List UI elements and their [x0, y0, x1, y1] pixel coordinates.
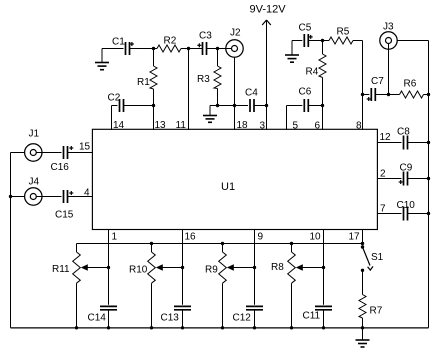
svg-text:15: 15 — [79, 142, 91, 153]
svg-text:R3: R3 — [197, 74, 210, 85]
svg-text:9: 9 — [258, 232, 264, 243]
svg-text:3: 3 — [260, 121, 266, 132]
svg-text:C8: C8 — [397, 127, 410, 138]
svg-text:R10: R10 — [129, 265, 148, 276]
svg-text:R9: R9 — [205, 265, 218, 276]
svg-text:C10: C10 — [397, 200, 416, 211]
svg-text:R2: R2 — [164, 36, 177, 47]
svg-text:C2: C2 — [108, 93, 121, 104]
svg-text:J2: J2 — [230, 28, 241, 39]
svg-text:C3: C3 — [199, 31, 212, 42]
svg-text:C6: C6 — [299, 87, 312, 98]
svg-text:C9: C9 — [400, 163, 413, 174]
svg-text:18: 18 — [237, 120, 249, 131]
svg-text:R4: R4 — [306, 67, 319, 78]
svg-text:6: 6 — [315, 121, 321, 132]
svg-text:R1: R1 — [137, 77, 150, 88]
svg-text:12: 12 — [380, 132, 392, 143]
svg-text:9V-12V: 9V-12V — [250, 4, 287, 16]
svg-text:C4: C4 — [245, 88, 258, 99]
svg-text:J1: J1 — [29, 129, 40, 140]
svg-text:10: 10 — [310, 232, 322, 243]
svg-text:13: 13 — [155, 120, 167, 131]
svg-text:R7: R7 — [370, 306, 383, 317]
svg-text:17: 17 — [349, 232, 361, 243]
svg-text:J3: J3 — [383, 22, 394, 33]
svg-text:C15: C15 — [55, 210, 74, 221]
svg-text:4: 4 — [84, 188, 90, 199]
svg-text:J4: J4 — [29, 177, 40, 188]
svg-text:1: 1 — [112, 232, 118, 243]
svg-text:8: 8 — [356, 121, 362, 132]
svg-text:C12: C12 — [233, 313, 252, 324]
svg-text:S1: S1 — [371, 252, 384, 263]
svg-text:7: 7 — [380, 204, 386, 215]
svg-text:U1: U1 — [221, 181, 235, 193]
svg-text:C7: C7 — [371, 76, 384, 87]
svg-text:R6: R6 — [404, 79, 417, 90]
svg-text:R5: R5 — [337, 27, 350, 38]
svg-text:2: 2 — [380, 169, 386, 180]
svg-text:C1: C1 — [112, 37, 125, 48]
svg-text:5: 5 — [293, 121, 299, 132]
svg-text:C5: C5 — [299, 23, 312, 34]
svg-text:R11: R11 — [52, 264, 70, 275]
svg-text:14: 14 — [113, 120, 125, 131]
svg-text:11: 11 — [176, 120, 187, 131]
svg-text:16: 16 — [185, 232, 197, 243]
svg-text:C13: C13 — [161, 313, 180, 324]
svg-text:R8: R8 — [271, 262, 284, 273]
svg-text:C16: C16 — [51, 162, 70, 173]
svg-text:C14: C14 — [88, 313, 107, 324]
svg-text:C11: C11 — [303, 311, 321, 322]
